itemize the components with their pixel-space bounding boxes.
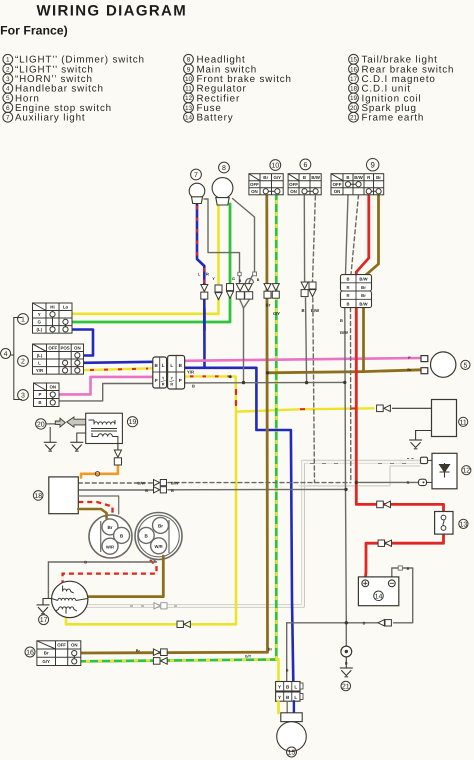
svg-text:20: 20 [37, 421, 45, 428]
svg-text:L: L [170, 363, 173, 368]
CDI unit 18 box [49, 477, 79, 514]
svg-text:2: 2 [21, 359, 25, 366]
svg-text:B: B [407, 567, 410, 571]
svg-text:P: P [179, 378, 182, 383]
light switch 2 table [33, 344, 84, 374]
wire B main switch below block to battery and earth [345, 308, 347, 646]
wire B tail light drop [286, 623, 288, 681]
wire GY rear brake run joining [81, 660, 277, 662]
wire B battery negative loop [392, 568, 413, 623]
rectifier 12 label [462, 466, 471, 475]
brown wire connector [153, 649, 160, 656]
svg-text:B/W: B/W [171, 480, 179, 485]
horn switch 3 label [18, 390, 29, 401]
svg-text:Hi: Hi [50, 304, 54, 309]
wire WR magneto connector to source coil [63, 560, 157, 583]
engine stop switch 6 label [300, 159, 311, 170]
spark plug 20 arrows [46, 423, 55, 425]
svg-text:Y: Y [171, 377, 174, 381]
svg-text:WIRING DIAGRAM: WIRING DIAGRAM [37, 3, 188, 20]
CDI magneto 17 label [39, 615, 49, 625]
ignition coil 19 label [127, 417, 137, 427]
svg-text:L: L [294, 685, 297, 690]
svg-text:ON: ON [71, 642, 78, 647]
main switch 9 label [367, 159, 379, 171]
tail light 15 label [287, 747, 297, 757]
svg-text:B: B [38, 400, 41, 405]
wire W white pair magneto to rectifier [87, 462, 420, 606]
wire Br horn feed horizontal [268, 370, 422, 373]
wire R rectifier link [356, 481, 418, 483]
svg-text:Y: Y [38, 312, 41, 317]
black pair connectors [236, 284, 244, 291]
svg-text:P: P [39, 392, 42, 397]
wire B magneto earth link [48, 557, 156, 562]
svg-text:W/R: W/R [155, 544, 163, 549]
legend [3, 54, 13, 64]
frame earth 21 label [341, 681, 351, 691]
svg-text:Br: Br [376, 175, 381, 180]
frame earth 21 node [341, 646, 352, 657]
wire B main switch drop [346, 195, 349, 275]
coil HT lead down to connector [117, 444, 119, 451]
wire W white stub into rectifier lower [300, 466, 420, 486]
svg-text:11: 11 [460, 419, 467, 426]
regulator ground [416, 431, 432, 441]
svg-text:Br: Br [136, 649, 141, 653]
svg-text:Auxiliary light: Auxiliary light [15, 113, 85, 124]
horn 5 [421, 352, 456, 377]
ignition coil ground [77, 433, 86, 442]
svg-text:ON: ON [74, 345, 81, 350]
svg-text:Frame earth: Frame earth [362, 113, 425, 124]
auxiliary light 7 bulb [189, 183, 205, 203]
wire R fuse to battery [366, 534, 444, 577]
svg-text:Y: Y [278, 685, 281, 690]
svg-text:Y/R: Y/R [36, 368, 44, 373]
battery 14 box [358, 577, 398, 606]
engine stop switch 6 table [288, 174, 321, 195]
svg-text:11: 11 [185, 86, 192, 93]
svg-text:(L): (L) [37, 353, 43, 358]
svg-text:B/W: B/W [340, 330, 348, 335]
regulator 11 box [432, 400, 457, 437]
svg-text:10: 10 [271, 163, 279, 170]
svg-text:R: R [346, 293, 349, 298]
fuse 13 label [459, 519, 468, 528]
svg-text:B/W: B/W [359, 301, 367, 306]
svg-text:B: B [239, 279, 242, 283]
svg-text:6: 6 [6, 105, 10, 112]
svg-text:B/W: B/W [311, 175, 320, 180]
svg-text:ON: ON [334, 189, 341, 194]
svg-text:16: 16 [350, 66, 358, 73]
svg-text:B/W: B/W [354, 175, 363, 180]
wire BW bus to CDI [168, 482, 351, 484]
svg-text:6: 6 [303, 162, 307, 169]
svg-text:13: 13 [185, 105, 193, 112]
svg-text:Br: Br [268, 648, 273, 652]
svg-text:20: 20 [350, 105, 358, 112]
svg-text:P: P [155, 378, 158, 383]
wire B horn switch to connector block [59, 384, 153, 401]
svg-text:G/Y: G/Y [245, 655, 252, 659]
ignition coil 19 box [86, 413, 123, 443]
regulator 11 label [459, 417, 468, 426]
svg-text:B: B [171, 488, 174, 493]
svg-text:Y/R: Y/R [187, 370, 194, 375]
svg-text:OFF: OFF [333, 182, 342, 187]
svg-text:OFF: OFF [289, 182, 298, 187]
magneto ground [43, 599, 52, 605]
wire B bulbs ground drop [243, 308, 245, 383]
svg-text:3: 3 [6, 76, 10, 83]
svg-text:21: 21 [342, 684, 350, 691]
wire Y magneto to junction and regulator [66, 412, 236, 625]
svg-text:18: 18 [34, 493, 42, 500]
svg-text:G/Y: G/Y [273, 311, 280, 316]
svg-text:4: 4 [6, 86, 10, 93]
svg-text:(For France): (For France) [0, 24, 68, 38]
wire LR auxiliary light drop [197, 204, 204, 285]
front brake switch 10 label [270, 160, 281, 171]
battery 14 label [374, 591, 384, 601]
wire WR CDI unit to magneto connector [78, 502, 112, 517]
wire B engine stop drop [303, 196, 305, 282]
spark plug ground [49, 427, 51, 442]
svg-text:2: 2 [6, 66, 10, 73]
svg-text:L: L [294, 695, 297, 700]
wire B bus to CDI [78, 489, 153, 491]
wire B ground bus horizontal [185, 381, 345, 384]
svg-text:Br: Br [263, 175, 268, 180]
dimmer switch 1 label [18, 314, 29, 325]
svg-text:W/R: W/R [106, 544, 114, 549]
rear brake switch 16 label [25, 647, 35, 657]
svg-text:R: R [346, 285, 349, 290]
CDI magneto 17 connector right [135, 513, 182, 560]
wire BW main switch drop [351, 195, 359, 275]
svg-text:8: 8 [222, 165, 226, 172]
tail light 15 connector [276, 682, 303, 702]
wire G headlight to dimmer switch [72, 204, 230, 322]
wire L dimmer to light switch [72, 330, 93, 356]
svg-text:B: B [257, 278, 260, 282]
wire B headlight ground [233, 199, 255, 284]
svg-text:19: 19 [129, 419, 137, 426]
svg-text:G/Y: G/Y [274, 175, 282, 180]
svg-text:15: 15 [288, 750, 296, 757]
light switch 2 label [18, 356, 29, 367]
svg-text:L: L [38, 360, 41, 365]
wire L connector block to tail light [185, 368, 294, 681]
wire Br CDI to magneto [78, 509, 106, 518]
svg-text:10: 10 [185, 76, 193, 83]
svg-text:R: R [206, 272, 209, 277]
orange bead [95, 472, 99, 476]
svg-text:B: B [340, 318, 343, 323]
handlebar connector block left [153, 357, 167, 388]
svg-text:Br: Br [361, 285, 366, 290]
wire Y headlight to dimmer switch [72, 204, 219, 314]
svg-text:G: G [38, 319, 42, 324]
svg-text:3: 3 [21, 393, 25, 400]
regulator terminal [392, 407, 432, 409]
tail light 15 bulb [277, 713, 307, 752]
svg-text:B: B [363, 622, 366, 626]
svg-text:B/W: B/W [359, 277, 367, 282]
wire O ignition coil to CDI [81, 466, 118, 478]
wire BW engine stop drop [313, 196, 316, 282]
CDI magneto 17 generator [51, 581, 87, 617]
svg-text:B: B [303, 175, 306, 180]
svg-text:Br: Br [158, 524, 163, 529]
svg-text:17: 17 [40, 617, 48, 624]
svg-text:Y: Y [278, 695, 281, 700]
svg-text:B: B [346, 277, 349, 282]
rectifier 12 box [432, 453, 457, 489]
rear brake switch 16 table [37, 641, 81, 666]
spark plug 20 label [36, 419, 46, 429]
wire YR switch2 to connector block [84, 368, 154, 370]
junction dots [242, 381, 245, 384]
wire Y tail light feed [276, 659, 278, 713]
wire Br main switch drop [364, 195, 379, 372]
red wire connectors [377, 501, 384, 508]
frame earth 21 ground [345, 657, 347, 668]
svg-text:B: B [286, 669, 289, 673]
svg-text:OFF: OFF [48, 345, 57, 350]
svg-text:9: 9 [187, 66, 191, 73]
bullet connectors harness row [201, 285, 208, 292]
wire L aux crossing patch [203, 308, 206, 330]
front brake switch 10 table [249, 174, 283, 195]
svg-text:21: 21 [350, 115, 358, 122]
svg-text:G: G [232, 277, 235, 281]
wire L light switch to connector block [84, 362, 154, 363]
svg-text:B: B [301, 308, 304, 313]
wire YR vertical with red dash to connector block [185, 376, 237, 411]
svg-text:R: R [170, 383, 173, 387]
wire YR red dashes on regulator feed [300, 408, 357, 409]
svg-text:L: L [162, 363, 165, 368]
svg-text:B: B [192, 384, 195, 389]
CDI unit 18 label [33, 491, 43, 501]
wire P horn switch to connector block [59, 377, 153, 395]
wire R main switch to rectifier and fuse [356, 195, 443, 512]
wire Br front brake switch down to rear brake switch [81, 196, 268, 653]
wire GY front brake switch down to tail light [275, 196, 278, 659]
svg-text:ON: ON [49, 384, 56, 389]
svg-text:B/W: B/W [137, 480, 145, 485]
svg-text:Battery: Battery [197, 113, 234, 124]
wire Br magneto connector to source [88, 556, 164, 597]
headlight 8 label [219, 162, 230, 173]
jumper arc over black connectors [246, 279, 254, 284]
svg-text:Br: Br [407, 368, 412, 372]
svg-text:B: B [346, 175, 349, 180]
svg-text:(L): (L) [36, 327, 42, 332]
handlebar switch 4 bracket [11, 318, 22, 400]
svg-text:8: 8 [187, 57, 191, 64]
svg-text:Br: Br [266, 303, 271, 308]
svg-text:ON: ON [290, 189, 297, 194]
rectifier R terminal bead [419, 479, 427, 485]
svg-text:16: 16 [26, 650, 34, 657]
grey outline CDI drop [78, 496, 118, 514]
svg-text:18: 18 [350, 86, 358, 93]
svg-text:Br: Br [44, 651, 49, 656]
horn switch 3 table [34, 383, 60, 407]
svg-text:1: 1 [6, 57, 10, 64]
svg-text:12: 12 [185, 95, 193, 102]
yellow wire connector [177, 621, 183, 627]
green yellow wire connector [153, 658, 160, 665]
tail light 15 wires to bulb [277, 701, 279, 713]
rectifier W terminal bead [421, 457, 428, 463]
svg-text:4: 4 [4, 351, 8, 358]
svg-text:12: 12 [462, 468, 470, 475]
svg-text:B: B [346, 301, 349, 306]
svg-text:ON: ON [251, 189, 258, 194]
svg-text:POS: POS [60, 345, 69, 350]
svg-text:Lo: Lo [63, 304, 69, 309]
CDI magneto 17 connector left [89, 515, 132, 558]
svg-text:9: 9 [371, 161, 375, 170]
svg-text:14: 14 [185, 115, 193, 122]
horn 5 label [461, 360, 470, 369]
svg-text:OFF: OFF [250, 182, 259, 187]
auxiliary light 7 label [191, 169, 202, 180]
ignition coil 19 windings [89, 420, 118, 444]
handlebar connector block right [168, 356, 185, 390]
svg-text:B: B [145, 488, 148, 493]
svg-text:15: 15 [350, 57, 358, 64]
white wire connector [154, 603, 160, 609]
svg-text:5: 5 [463, 362, 467, 369]
svg-text:5: 5 [6, 95, 10, 102]
svg-text:7: 7 [194, 172, 198, 179]
svg-text:14: 14 [375, 593, 383, 600]
wire P connector block to horn [185, 358, 422, 361]
dimmer switch 1 table [33, 303, 73, 333]
svg-text:Br: Br [361, 293, 366, 298]
wire BW below block [350, 308, 352, 481]
mid-run connectors [154, 480, 160, 486]
wire B black merge below connectors [240, 300, 244, 308]
svg-text:B/W: B/W [311, 308, 319, 313]
svg-text:Br: Br [107, 525, 112, 530]
svg-text:19: 19 [350, 95, 358, 102]
svg-text:R: R [407, 481, 410, 485]
headlight 8 bulb [212, 178, 233, 205]
svg-text:17: 17 [350, 76, 358, 83]
wire B aux light ground [204, 199, 240, 283]
svg-text:R: R [162, 383, 165, 387]
svg-text:G/Y: G/Y [42, 659, 50, 664]
svg-text:13: 13 [460, 521, 468, 528]
svg-text:7: 7 [6, 115, 10, 122]
svg-text:OFF: OFF [57, 642, 66, 647]
main switch 9 table [331, 174, 384, 195]
main switch connector stack [341, 275, 372, 308]
svg-text:B: B [84, 561, 87, 565]
fuse 13 [435, 512, 453, 535]
battery earth connector [378, 620, 384, 626]
svg-text:Y: Y [212, 277, 215, 281]
wire L aux below connector [203, 299, 206, 368]
